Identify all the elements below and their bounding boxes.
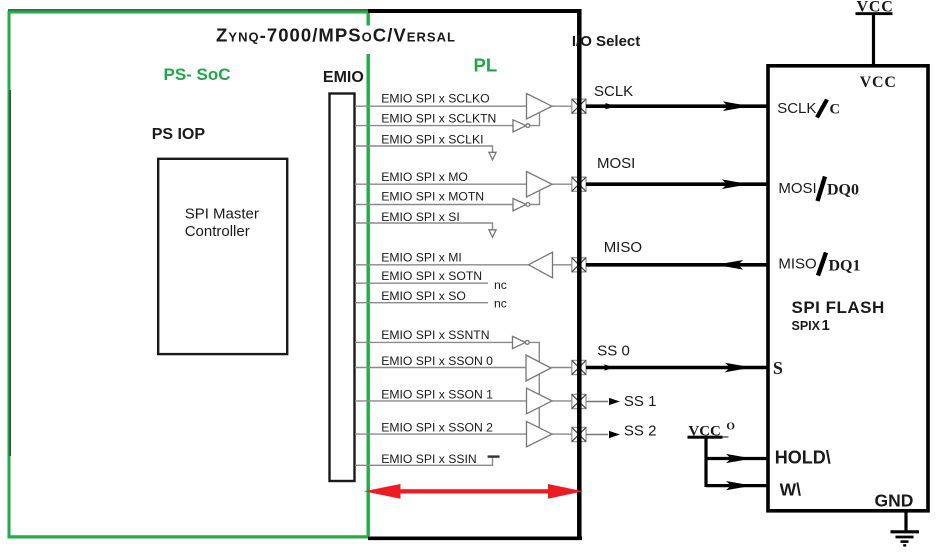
svg-text:Zynq-7000/MPSoC/Versal: Zynq-7000/MPSoC/Versal	[216, 25, 455, 46]
svg-text:PL: PL	[474, 55, 498, 76]
svg-text:EMIO SPI x SSIN: EMIO SPI x SSIN	[381, 452, 477, 466]
svg-text:EMIO SPI x MI: EMIO SPI x MI	[381, 251, 462, 265]
svg-text:EMIO SPI x SOTN: EMIO SPI x SOTN	[381, 269, 482, 283]
svg-text:EMIO SPI x SSON 0: EMIO SPI x SSON 0	[381, 354, 493, 368]
svg-text:EMIO SPI x SCLKTN: EMIO SPI x SCLKTN	[381, 112, 496, 126]
svg-text:C: C	[830, 102, 840, 118]
svg-text:SPI FLASH: SPI FLASH	[792, 298, 885, 317]
svg-text:MISO: MISO	[604, 239, 642, 256]
svg-text:S: S	[773, 358, 783, 378]
svg-text:SS 1: SS 1	[624, 393, 657, 410]
svg-text:DQ0: DQ0	[827, 181, 859, 198]
svg-text:SS 0: SS 0	[597, 343, 630, 360]
svg-text:I/O Select: I/O Select	[572, 33, 640, 50]
svg-text:HOLD\: HOLD\	[775, 448, 831, 468]
svg-text:VCC: VCC	[857, 0, 894, 16]
svg-text:SPIX1: SPIX1	[792, 317, 830, 334]
svg-text:SCLK: SCLK	[594, 83, 633, 100]
svg-text:PS- SoC: PS- SoC	[164, 65, 231, 84]
svg-text:nc: nc	[494, 297, 507, 311]
svg-text:EMIO SPI x SSON 2: EMIO SPI x SSON 2	[381, 421, 493, 435]
svg-text:EMIO SPI x SSNTN: EMIO SPI x SSNTN	[381, 328, 489, 342]
svg-text:EMIO SPI x SSON 1: EMIO SPI x SSON 1	[381, 388, 493, 402]
svg-text:SCLK: SCLK	[777, 100, 816, 117]
svg-text:W\: W\	[780, 479, 802, 499]
svg-text:PS IOP: PS IOP	[152, 126, 206, 143]
svg-text:Controller: Controller	[185, 223, 250, 240]
svg-text:SS 2: SS 2	[624, 422, 657, 439]
svg-text:EMIO SPI x MO: EMIO SPI x MO	[381, 170, 468, 184]
svg-text:EMIO SPI x SCLKI: EMIO SPI x SCLKI	[381, 133, 483, 147]
svg-text:EMIO: EMIO	[323, 69, 364, 86]
svg-text:VCC: VCC	[860, 74, 897, 91]
svg-text:MOSI: MOSI	[597, 155, 635, 172]
svg-text:EMIO SPI x SI: EMIO SPI x SI	[381, 210, 460, 224]
svg-text:VCC_O: VCC_O	[688, 420, 735, 439]
svg-text:SPI Master: SPI Master	[185, 206, 259, 223]
svg-text:EMIO SPI x MOTN: EMIO SPI x MOTN	[381, 190, 484, 204]
svg-text:GND: GND	[875, 490, 914, 510]
svg-text:EMIO SPI x SCLKO: EMIO SPI x SCLKO	[381, 92, 489, 106]
svg-text:EMIO SPI x SO: EMIO SPI x SO	[381, 289, 466, 303]
svg-text:DQ1: DQ1	[829, 257, 861, 274]
svg-text:MOSI: MOSI	[778, 180, 816, 197]
svg-text:nc: nc	[494, 278, 507, 292]
svg-text:MISO: MISO	[778, 256, 816, 273]
